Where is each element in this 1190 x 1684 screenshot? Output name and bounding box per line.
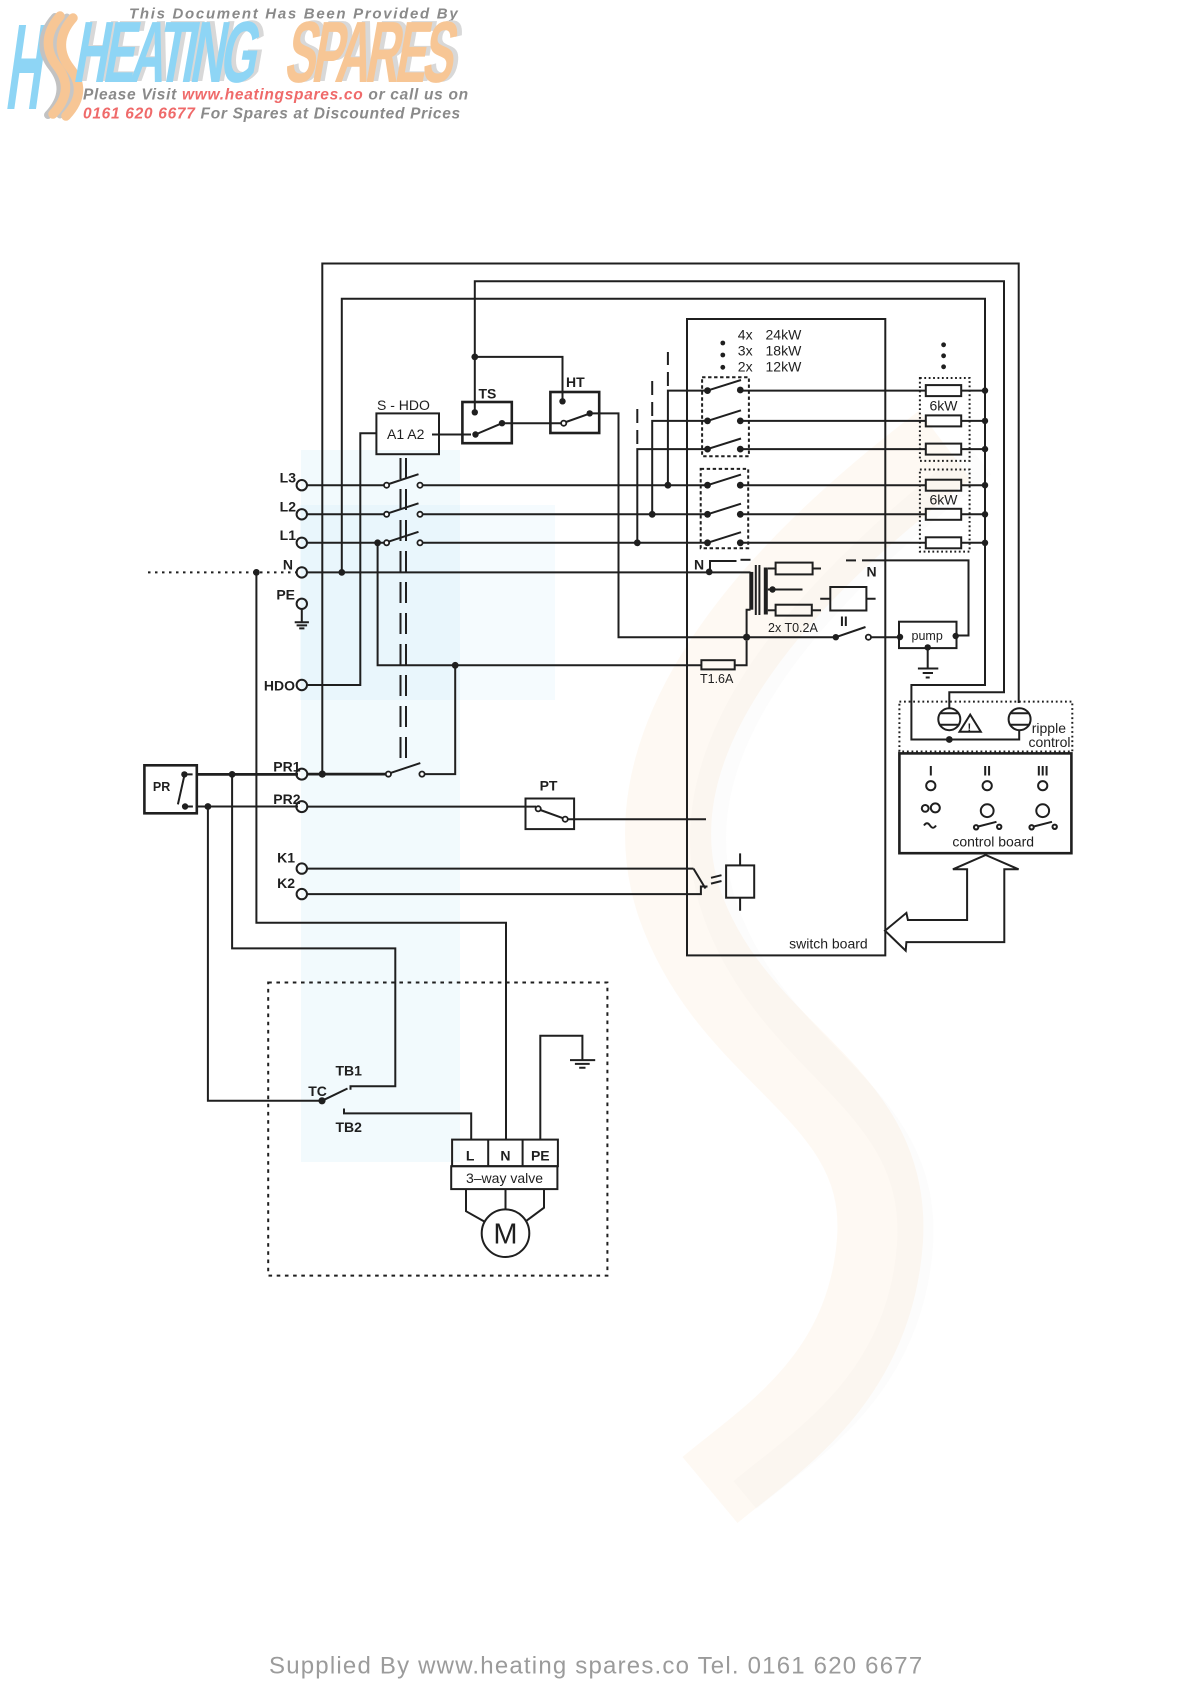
svg-text:III: III — [1037, 763, 1049, 779]
svg-text:Please Visit www.heatingspares: Please Visit www.heatingspares.co or cal… — [83, 87, 469, 104]
FOOTER — [269, 1653, 923, 1680]
node ripple 1 bottom — [946, 736, 953, 743]
node riser L3 — [665, 482, 672, 489]
wire N dotted stub — [148, 571, 297, 573]
heater R6 — [926, 537, 988, 548]
contactor lower pole 2 — [704, 504, 744, 518]
contactor lower pole 1 — [704, 475, 744, 489]
logo S flame — [48, 16, 65, 114]
ellipsis dots options — [720, 341, 725, 370]
svg-text:PE: PE — [276, 587, 295, 603]
svg-text:12kW: 12kW — [766, 358, 803, 374]
node fuse row PR1 junction — [452, 662, 459, 669]
ground PE terminal — [295, 609, 309, 628]
wire heater feed row 2 — [740, 420, 926, 422]
wire L2 row — [307, 513, 708, 515]
svg-text:switch board: switch board — [789, 936, 868, 952]
svg-text:L2: L2 — [280, 499, 297, 515]
node L1 fuse tap — [374, 539, 381, 546]
wire valve to motor middle — [505, 1189, 507, 1209]
relay K coil box — [726, 853, 754, 910]
heater bank upper dotted box — [920, 378, 970, 461]
terminal L2 — [280, 499, 307, 520]
ripple control dotted box — [899, 702, 1072, 752]
wire PR1 row — [307, 773, 388, 776]
switch TS contacts — [472, 409, 506, 438]
wire PR top output — [197, 773, 298, 776]
relay K contact blade — [694, 869, 722, 889]
heater bank lower dotted box — [920, 470, 970, 552]
wire PR bottom to TC — [208, 807, 322, 1101]
wire PR2 row to PT — [307, 806, 536, 808]
svg-text:TC: TC — [308, 1083, 327, 1099]
switch PR box — [144, 765, 196, 813]
logo S flame shadow — [43, 17, 60, 115]
svg-text:N: N — [500, 1148, 510, 1164]
switch PT box — [526, 799, 575, 830]
wire N row — [307, 571, 751, 573]
svg-text:PT: PT — [540, 778, 558, 794]
valve terminal block — [452, 1140, 558, 1167]
node pump right pin — [953, 633, 959, 639]
fuse F2 T0.2A — [776, 605, 821, 616]
switch symbol column III — [1029, 822, 1057, 830]
contactor upper dashed box — [702, 377, 749, 456]
svg-text:N: N — [283, 557, 293, 573]
contactor lower dashed box — [701, 469, 749, 548]
svg-text:!: ! — [968, 722, 972, 734]
terminal N — [283, 557, 307, 578]
switch symbol column II — [974, 822, 1002, 830]
node riser L1 — [634, 539, 641, 546]
heater R1 — [926, 385, 988, 396]
button column III — [1036, 804, 1049, 817]
wire N right to pump — [862, 560, 969, 635]
pump box — [899, 622, 957, 648]
HEADER — [0, 0, 469, 135]
meter ripple 1 — [938, 708, 960, 730]
svg-text:N: N — [694, 557, 704, 573]
terminal L3 — [280, 470, 307, 491]
terminal PR2 — [273, 791, 307, 812]
wire PR top to TB1 loop — [232, 774, 395, 1089]
contactor lower pole 3 — [704, 532, 744, 546]
svg-text:6kW: 6kW — [930, 492, 959, 508]
svg-text:II: II — [983, 763, 991, 779]
ellipsis dots heaters — [941, 342, 946, 369]
wire heater feed row 4 — [740, 484, 926, 486]
node N transformer tap — [706, 569, 713, 576]
svg-text:II: II — [840, 613, 848, 629]
node N bus tap — [338, 569, 345, 576]
motor M — [482, 1209, 530, 1257]
switch HT box — [550, 392, 599, 433]
svg-text:A1 A2: A1 A2 — [387, 426, 425, 442]
breaker linkage dashed — [401, 458, 407, 768]
wire N right dashed stub — [846, 559, 856, 561]
node TS top junction — [471, 354, 478, 361]
wire valve to motor right — [526, 1189, 544, 1221]
ground valve PE — [570, 1060, 595, 1068]
svg-text:S - HDO: S - HDO — [377, 397, 430, 413]
node N-valve tap — [253, 569, 260, 576]
svg-text:3x: 3x — [738, 342, 753, 358]
logo word HEATING shadow — [73, 2, 270, 99]
logo word SPARES — [280, 3, 464, 100]
contactor upper pole 3 — [704, 439, 744, 453]
breaker pole L3 — [384, 474, 423, 488]
svg-text:2x T0.2A: 2x T0.2A — [768, 621, 818, 635]
wire heater feed row 5 — [740, 513, 926, 515]
wire valve PE to earth — [540, 1036, 582, 1140]
svg-text:K2: K2 — [277, 875, 295, 891]
svg-text:control board: control board — [952, 834, 1034, 850]
indicator lamps row1 — [926, 781, 1047, 790]
warning triangle — [960, 715, 981, 734]
svg-text:6kW: 6kW — [930, 398, 959, 414]
svg-text:0161 620 6677 For Spares at Di: 0161 620 6677 For Spares at Discounted P… — [83, 106, 461, 123]
block arrow to boards — [885, 855, 1019, 951]
ground pump — [918, 648, 938, 677]
svg-text:PR2: PR2 — [273, 791, 300, 807]
svg-text:L3: L3 — [280, 470, 297, 486]
transformer T1 core — [756, 565, 760, 615]
wire riser L1 dashed continuation — [636, 404, 638, 444]
node riser L2 — [649, 511, 656, 518]
node pump bottom pin — [925, 644, 931, 650]
symbol AC tilde column I — [924, 823, 936, 828]
wire N bus riser to heater return (up-over-down) — [342, 299, 1019, 740]
svg-text:K1: K1 — [277, 850, 295, 866]
svg-text:N: N — [867, 564, 877, 580]
logo S flame 2 — [61, 18, 78, 116]
wire TS junction to HT top — [475, 357, 563, 401]
contactor S-HDO box — [376, 413, 439, 454]
contactor upper pole 1 — [704, 380, 744, 394]
breaker pole L2 — [384, 503, 423, 517]
svg-text:24kW: 24kW — [766, 327, 803, 343]
relay coil II box — [820, 587, 875, 611]
wire A1A2 output to TS — [432, 434, 471, 436]
wire N to valve loop — [256, 572, 506, 1139]
heater R4 — [926, 480, 988, 491]
switch PR contacts — [178, 771, 193, 810]
svg-text:3–way valve: 3–way valve — [466, 1170, 543, 1186]
heater R2 — [926, 415, 988, 426]
svg-text:4x: 4x — [738, 327, 753, 343]
wire PR1 pole output riser — [425, 665, 456, 774]
valve label box — [451, 1166, 557, 1189]
wire TS output to HT — [502, 422, 564, 424]
wire transformer primary bottom — [747, 610, 751, 638]
heater R3 — [926, 444, 988, 455]
contactor upper pole 2 — [704, 410, 744, 424]
svg-text:Supplied By www.heating spares: Supplied By www.heating spares.co Tel. 0… — [269, 1653, 923, 1680]
terminal HDO — [264, 678, 307, 694]
switch HT contacts — [559, 398, 593, 426]
WATERMARK — [300, 445, 980, 1495]
svg-text:M: M — [493, 1219, 517, 1251]
wire HDO to A1 riser — [307, 433, 377, 685]
wire N bracket — [710, 561, 737, 572]
switch TC — [318, 1089, 347, 1105]
svg-text:2x: 2x — [738, 358, 753, 374]
wire PR bottom output — [197, 806, 298, 808]
wire riser L1 to upper contactor — [637, 449, 707, 543]
svg-text:pump: pump — [912, 629, 943, 643]
indicator pair column I — [922, 803, 940, 812]
wire riser L3 dashed continuation — [667, 352, 669, 386]
switch pump contacts — [833, 627, 871, 640]
transformer T1 primary — [749, 572, 753, 610]
switch board box — [687, 319, 885, 955]
wire heater feed row 6 — [740, 542, 926, 544]
wire pump switch to pump — [871, 636, 899, 638]
svg-text:PR1: PR1 — [273, 759, 300, 775]
node PR1 ripple loop tap — [319, 771, 326, 778]
svg-text:PR: PR — [153, 780, 170, 794]
svg-text:control: control — [1028, 734, 1070, 750]
logo word HEATING — [69, 3, 266, 100]
control board box — [899, 753, 1071, 853]
wire heater feed row 1 — [740, 390, 926, 392]
logo word SPARES shadow — [284, 2, 468, 99]
breaker pole L1 — [384, 532, 423, 546]
breaker pole PR1 — [386, 763, 425, 777]
switch TS box — [462, 402, 511, 443]
wire secondary top tap — [768, 568, 776, 570]
svg-text:HT: HT — [566, 374, 585, 390]
wire TB2 to valve L — [344, 1109, 471, 1140]
transformer T1 secondary — [764, 568, 768, 615]
wire PR1 ripple loop (up-over-down to ripple control) — [322, 264, 1018, 775]
wire L3 row — [307, 484, 708, 486]
svg-text:18kW: 18kW — [766, 342, 803, 358]
fuse F3 T1.6A — [701, 641, 746, 670]
svg-text:I: I — [929, 763, 933, 779]
logo H glyph — [0, 0, 54, 135]
svg-text:TB1: TB1 — [336, 1063, 363, 1079]
node pump line junction — [743, 634, 750, 641]
fuse F1 T0.2A — [776, 563, 821, 575]
terminal PE — [276, 587, 307, 610]
logo S flame shadow 2 — [55, 17, 72, 115]
svg-text:TB2: TB2 — [336, 1119, 363, 1135]
wire HT output to pump riser — [590, 413, 836, 637]
terminal K2 — [277, 875, 307, 899]
button column II — [981, 804, 994, 817]
terminal L1 — [280, 527, 307, 548]
svg-text:L1: L1 — [280, 527, 297, 543]
wire L1 row — [307, 542, 708, 544]
wire N bracket dash — [741, 559, 751, 561]
valve enclosure dashed box — [268, 983, 607, 1276]
wire secondary bottom tap — [768, 609, 776, 611]
switch PT contacts — [536, 806, 568, 822]
wire valve to motor left — [466, 1189, 485, 1222]
wire K2 row — [307, 887, 708, 895]
node pump left pin — [897, 634, 903, 640]
svg-text:TS: TS — [479, 386, 497, 402]
wire L1 to fuse row — [378, 543, 702, 666]
svg-text:L: L — [466, 1148, 475, 1164]
wire TS loop (up-over-down to ripple control) — [475, 281, 1004, 708]
wire riser L2 dashed continuation — [651, 376, 653, 416]
wire heater feed row 3 — [740, 448, 926, 450]
heater R5 — [926, 509, 988, 520]
svg-text:HDO: HDO — [264, 678, 295, 694]
wire PT output — [568, 818, 706, 820]
terminal PR1 — [273, 759, 307, 780]
wire secondary centre tap — [768, 586, 803, 592]
terminal K1 — [277, 850, 307, 874]
svg-text:T1.6A: T1.6A — [700, 672, 734, 686]
wire TS riser — [474, 357, 476, 412]
node PR top tap — [229, 771, 236, 778]
wire riser L2 to upper contactor — [652, 421, 707, 514]
svg-text:PE: PE — [531, 1148, 550, 1164]
meter ripple 2 — [1009, 708, 1031, 730]
wire riser L3 to upper contactor — [668, 391, 708, 486]
wire K1 row — [307, 868, 694, 870]
node PR bottom tap — [205, 803, 212, 810]
